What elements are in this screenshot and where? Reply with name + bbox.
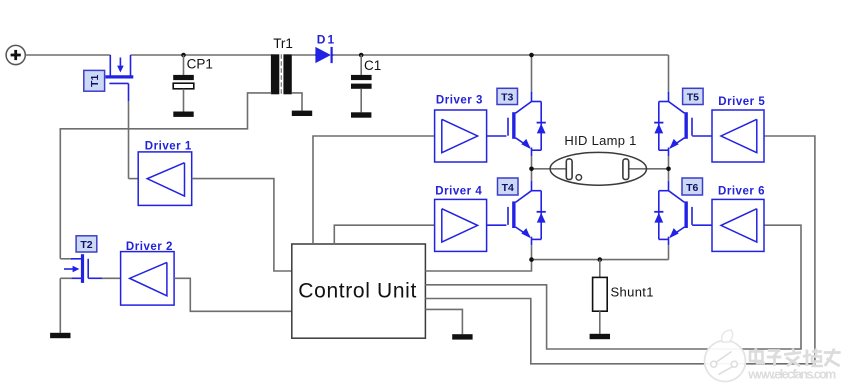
label Driver 4 [435, 185, 482, 197]
resistor Shunt1 [593, 260, 608, 334]
watermark [705, 330, 841, 382]
positive supply terminal [6, 45, 25, 64]
label Driver 2 [126, 241, 172, 253]
wire [334, 54, 669, 56]
wire [334, 225, 434, 244]
transistor T2 [60, 254, 120, 283]
label Tr1 [273, 36, 293, 51]
wire [487, 135, 507, 137]
svg-text:T1: T1 [89, 75, 101, 87]
lamp HID Lamp 1 [550, 152, 646, 185]
ground [50, 333, 70, 338]
svg-text:C1: C1 [364, 58, 381, 73]
op-amp Driver 6 [712, 199, 764, 251]
svg-text:Control Unit: Control Unit [298, 280, 416, 303]
svg-text:www.elecfans.com: www.elecfans.com [747, 368, 836, 382]
ground [590, 334, 610, 339]
transistor T5 [654, 92, 692, 169]
label T1 [84, 70, 105, 91]
ground [351, 112, 371, 117]
wire [532, 259, 669, 261]
label T6 [682, 178, 703, 195]
svg-text:Shunt1: Shunt1 [611, 285, 654, 300]
label T2 [76, 236, 97, 252]
svg-text:Driver 3: Driver 3 [436, 95, 483, 107]
op-amp Driver 4 [435, 199, 487, 251]
ground [173, 112, 193, 117]
wire [425, 225, 801, 349]
node bridge right midpoint [666, 167, 671, 172]
node T4 emitter junction [529, 257, 534, 262]
wire [292, 93, 302, 111]
ground [452, 334, 472, 339]
wire [668, 55, 670, 93]
wire [129, 101, 139, 179]
svg-text:Driver 2: Driver 2 [126, 241, 172, 253]
wire [532, 168, 567, 170]
label C1 [364, 58, 381, 73]
wire [692, 135, 712, 137]
wire [487, 224, 507, 226]
wire [425, 260, 531, 271]
wire [59, 278, 61, 333]
wire [292, 54, 315, 56]
svg-text:Driver 6: Driver 6 [718, 186, 765, 198]
node T3 collector junction [529, 53, 534, 58]
transistor T4 [508, 169, 546, 260]
svg-text:CP1: CP1 [187, 57, 213, 72]
wire [192, 179, 292, 271]
node CP1 junction [181, 53, 186, 58]
svg-text:T4: T4 [502, 182, 514, 194]
capacitor CP1 [173, 55, 194, 112]
diode D1 [315, 47, 334, 63]
ground [292, 111, 312, 116]
wire [425, 309, 462, 334]
wire [313, 136, 435, 244]
label T3 [497, 88, 518, 104]
svg-text:Driver 1: Driver 1 [145, 140, 192, 152]
transistor T1 [106, 55, 134, 101]
wire [25, 54, 110, 56]
transistor T3 [508, 92, 546, 169]
label Driver 5 [718, 96, 765, 108]
wire [629, 168, 669, 170]
label Driver 3 [436, 95, 483, 107]
node C1 junction [359, 53, 364, 58]
svg-text:Driver 4: Driver 4 [435, 185, 482, 197]
svg-text:T5: T5 [687, 92, 699, 104]
wire [60, 93, 271, 259]
label Driver 1 [145, 140, 192, 152]
wire [531, 55, 533, 93]
node shunt junction [598, 257, 603, 262]
op-amp Driver 5 [712, 110, 764, 162]
wire [131, 54, 272, 56]
transistor T6 [654, 169, 692, 260]
op-amp Driver 3 [435, 110, 487, 162]
control unit [292, 244, 426, 338]
label D1 [317, 33, 335, 47]
label HID Lamp 1 [564, 133, 636, 148]
label Driver 6 [718, 186, 765, 198]
svg-text:T2: T2 [80, 239, 92, 251]
svg-text:T3: T3 [501, 92, 513, 104]
svg-text:HID Lamp 1: HID Lamp 1 [564, 133, 636, 148]
op-amp Driver 2 [121, 252, 175, 306]
label Shunt1 [611, 285, 654, 300]
wire [692, 224, 712, 226]
svg-text:Tr1: Tr1 [273, 36, 293, 51]
svg-text:Driver 5: Driver 5 [718, 96, 765, 108]
op-amp Driver 1 [138, 152, 192, 206]
label CP1 [187, 57, 213, 72]
wire [174, 278, 292, 311]
transformer Tr1 [271, 54, 292, 94]
label T4 [498, 178, 519, 195]
capacitor C1 [351, 55, 372, 112]
wire [425, 136, 815, 364]
node bridge left midpoint [529, 167, 534, 172]
svg-text:T6: T6 [686, 182, 698, 194]
label T5 [683, 88, 704, 104]
